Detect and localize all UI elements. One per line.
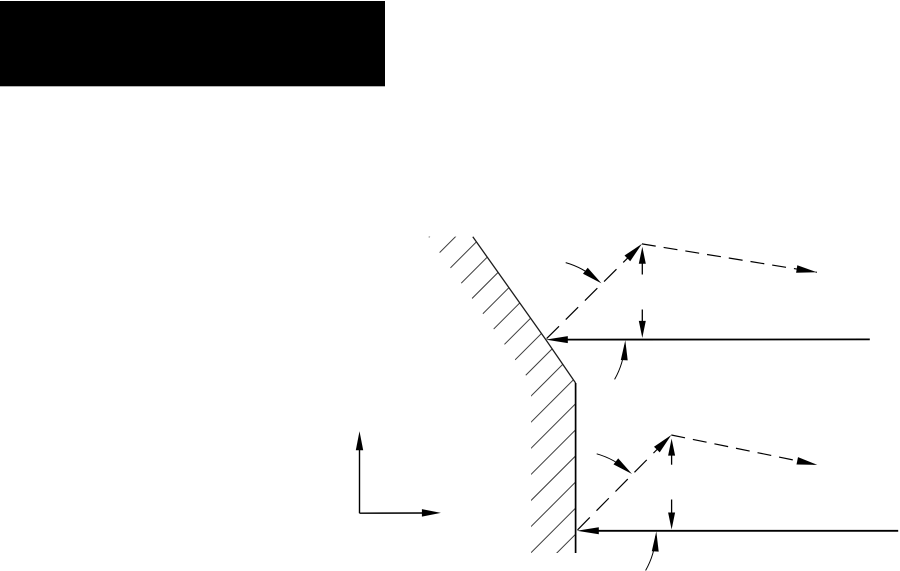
wall surface polyline: [473, 237, 576, 383]
coordinate axis horizontal: [360, 509, 441, 516]
lower reflected dashed ray: [578, 435, 672, 530]
upper dimension arrow down: [639, 310, 646, 338]
upper angle arc A: [566, 263, 602, 284]
upper angle arc B: [615, 340, 628, 379]
upper scattered dashed ray: [642, 244, 817, 273]
lower scattered dashed ray: [671, 435, 817, 465]
upper reflected dashed ray: [547, 244, 642, 339]
redaction box: [0, 1, 385, 86]
upper dimension arrow up: [639, 247, 646, 275]
lower dimension arrow down: [668, 500, 675, 530]
lower angle arc A: [597, 454, 632, 474]
lower angle arc B: [646, 531, 659, 570]
lower dimension arrow up: [668, 439, 675, 465]
coordinate axis vertical: [356, 431, 363, 513]
upper incident ray: [546, 336, 870, 343]
lower incident ray: [577, 527, 898, 534]
